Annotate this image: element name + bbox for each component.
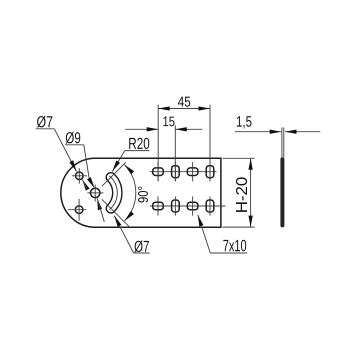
dimension line 15 (125, 128, 158, 130)
dimension line 1,5 left tail (235, 131, 281, 133)
centerline ray NE through slot upper end (102, 162, 126, 186)
slot centerline ticks row2 col4 (209, 196, 211, 215)
slot centerline ticks row1 col3 (192, 162, 194, 181)
slot 7x10 row2 col1 (153, 202, 164, 210)
leader dia7 bottom to arc slot lower end (114, 216, 133, 253)
slot 7x10 row1 col4 (206, 166, 214, 178)
slot 7x10 row1 col3 (187, 168, 198, 176)
centerline ray SE through slot lower end (102, 199, 130, 227)
underline of 7x10 label (210, 252, 247, 254)
underline of dia7 bottom label (134, 252, 150, 254)
90 degree arc arrow bottom (124, 211, 134, 221)
underline of dia7 label (36, 128, 55, 130)
centerlines of bottom-left hole (68, 209, 87, 211)
slot centerline ticks row2 col3 (192, 196, 194, 215)
slot centerline ticks row1 col2 (174, 162, 176, 181)
leader dia9 to center hole (84, 145, 89, 179)
svg-text:H-20: H-20 (234, 177, 251, 214)
slot 7x10 row2 col3 (187, 202, 198, 210)
slot 7x10 row2 col4 (206, 200, 214, 212)
second arrow dia9 below center hole (97, 198, 102, 210)
dimension line H-20 (250, 158, 252, 227)
extension line col1 (157, 105, 159, 181)
slot centerline ticks row2 col2 (174, 196, 176, 215)
extension line H-20 top (223, 157, 255, 159)
plate outline (stadium shape front view) (61, 158, 221, 227)
extension line H-20 bottom (223, 226, 255, 228)
svg-text:15: 15 (163, 113, 176, 129)
second arrow dia7 top-left hole (82, 180, 89, 191)
90 degree arc arrow top (124, 165, 134, 175)
dimension line 1,5 right tail (285, 131, 320, 133)
svg-text:1,5: 1,5 (236, 114, 252, 131)
arc slot R20 90deg (111, 177, 117, 208)
svg-text:90°: 90° (136, 186, 152, 203)
row centerline row2 (150, 205, 226, 207)
slot 7x10 row1 col2 (172, 166, 180, 178)
row centerline row1 (150, 171, 217, 173)
slot centerline ticks row1 col4 (209, 162, 211, 181)
center hole dia9 (91, 188, 100, 197)
underline of R20 label (125, 150, 150, 152)
leader R20 to arc slot (112, 151, 124, 172)
slot centerline ticks row1 col1 (157, 162, 159, 181)
svg-text:45: 45 (178, 95, 191, 111)
leader 7x10 to slot row2 col3 (198, 215, 211, 253)
slot 7x10 row1 col1 (153, 168, 164, 176)
side view plate bar (thickness view) (280, 157, 284, 227)
centerlines of center hole (87, 192, 103, 194)
underline of dia9 label (65, 144, 84, 146)
centerlines of top-left hole (72, 175, 87, 177)
extension line col2 (174, 125, 176, 181)
hole top-left dia7 (76, 172, 84, 180)
extension line col4 (209, 105, 211, 181)
slot centerline ticks row2 col1 (157, 196, 159, 215)
slot 7x10 row2 col2 (172, 200, 180, 212)
arc slot centerline arc (109, 176, 117, 210)
leader dia7 to top-left hole (54, 129, 76, 172)
90 degree dimension arc (124, 165, 135, 221)
hole bottom-left dia7 (75, 206, 83, 214)
extension lines 1,5 (281, 128, 283, 158)
dimension line 45 (158, 108, 210, 110)
